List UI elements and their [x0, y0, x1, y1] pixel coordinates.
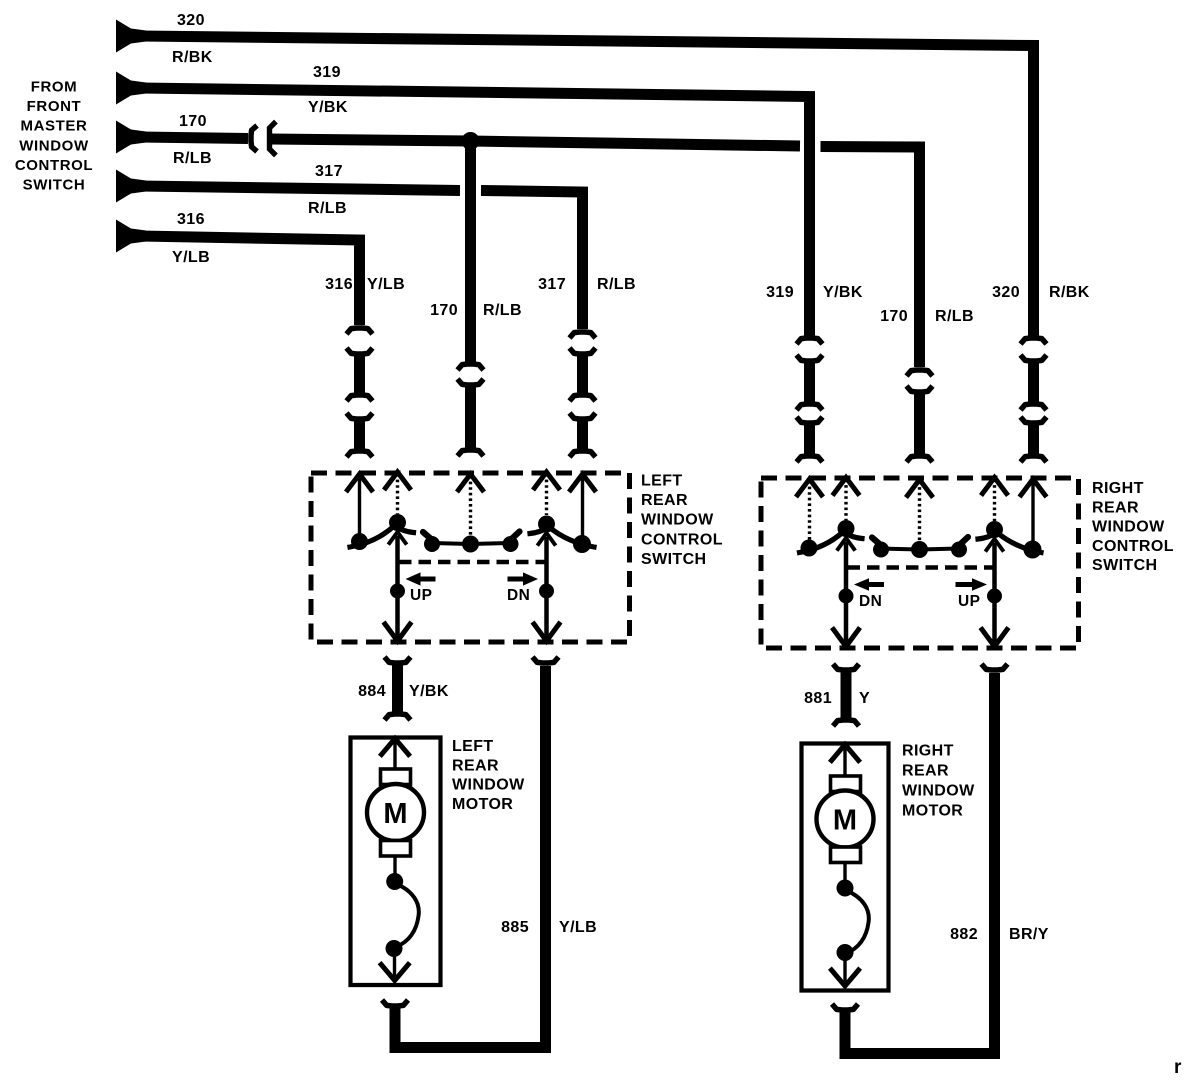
svg-text:320: 320 — [992, 284, 1020, 301]
wire 319 connector segment B — [797, 417, 823, 462]
wire 316 horizontal (entry to corner and down) — [116, 220, 360, 326]
UP output stem right — [992, 543, 997, 647]
contact dot 317 — [573, 535, 591, 553]
brush rect bottom right motor — [831, 847, 861, 863]
svg-text:R/LB: R/LB — [935, 308, 974, 325]
svg-text:317: 317 — [538, 276, 566, 293]
limit switch arc right motor — [846, 891, 869, 954]
wire 170 from connector to junction dot — [270, 139, 471, 141]
up arrowhead under UP pivot right — [987, 539, 1003, 550]
wire 170 left connector segment — [458, 379, 484, 456]
motor feed arrow up left motor — [382, 739, 409, 770]
pivot dot DN wiper — [538, 516, 555, 533]
svg-text:M: M — [383, 798, 407, 830]
UP output stem — [395, 536, 400, 641]
wire 319 horizontal (entry to corner and down) — [116, 72, 810, 338]
DN direction arrow right — [854, 578, 884, 591]
wire 317 connector segment B — [570, 413, 596, 457]
svg-text:170: 170 — [179, 113, 207, 130]
svg-text:320: 320 — [177, 12, 205, 29]
brush rect bottom left motor — [381, 841, 411, 857]
svg-text:DN: DN — [507, 587, 530, 604]
svg-text:319: 319 — [313, 64, 341, 81]
UP direction arrow right — [956, 578, 988, 591]
contact bar right half — [471, 543, 511, 544]
switch bottom arrow UP output right — [982, 630, 1007, 647]
wire 319 end connector fork — [797, 338, 823, 344]
svg-text:REAR: REAR — [902, 763, 949, 780]
svg-text:CONTROL: CONTROL — [641, 531, 723, 548]
hook contact bar left — [423, 532, 431, 539]
switch pin arrow UP contact right — [983, 478, 1007, 494]
pin 170 stem dotted right — [918, 482, 921, 542]
wire 884 segment — [392, 664, 403, 713]
pin 170 stem dotted — [469, 476, 472, 535]
entry arrow wire 170 — [116, 121, 146, 154]
wire 316 connector segment A — [347, 348, 373, 401]
motor feed arrow up right motor — [832, 745, 859, 777]
pivot dot UP wiper right — [986, 521, 1003, 538]
svg-text:Y/BK: Y/BK — [409, 683, 449, 700]
label 320 / R-BK top — [172, 12, 213, 66]
center contact dot 170 right — [911, 541, 928, 558]
wire 881 segment — [841, 671, 852, 719]
contact dot bar right — [503, 536, 519, 552]
right rear window motor box — [802, 744, 889, 991]
svg-text:MOTOR: MOTOR — [902, 803, 963, 820]
stem to bottom arrow left motor — [393, 950, 396, 979]
svg-text:SWITCH: SWITCH — [641, 551, 707, 568]
svg-text:R/LB: R/LB — [173, 150, 212, 167]
pin UP stem dotted right — [993, 480, 996, 522]
svg-text:316: 316 — [325, 276, 353, 293]
label LEFT REAR WINDOW MOTOR — [452, 738, 525, 813]
wire 884 connector fork bottom — [385, 714, 411, 720]
svg-text:Y/BK: Y/BK — [823, 284, 863, 301]
wire 170 right connector segment — [907, 386, 933, 462]
svg-text:Y/LB: Y/LB — [559, 919, 597, 936]
wire 882 run (motor to switch) — [845, 673, 995, 1054]
contact bar left half — [432, 543, 471, 544]
svg-text:MASTER: MASTER — [21, 118, 88, 135]
label FROM FRONT MASTER WINDOW CONTROL SWITCH — [15, 79, 93, 194]
motor bottom arrow down left — [381, 965, 408, 981]
label 319 / Y-BK top — [308, 64, 348, 116]
svg-text:R/LB: R/LB — [308, 200, 347, 217]
motor M circle right — [817, 791, 874, 848]
label LEFT REAR WINDOW CONTROL SWITCH — [641, 473, 723, 568]
label 881 / Y — [804, 690, 870, 707]
limit dot upper left motor — [386, 873, 403, 890]
junction dot wire 170 — [462, 132, 480, 150]
hook contact bar left right switch — [872, 538, 880, 545]
switch pin arrow 170 right feed — [908, 480, 932, 496]
limit dot lower right motor — [837, 944, 854, 961]
left rear window control switch dashed box — [311, 473, 630, 642]
wire 885 run (motor to switch) — [395, 666, 546, 1048]
svg-text:SWITCH: SWITCH — [1092, 557, 1158, 574]
label 320 / R-BK mid — [992, 284, 1090, 301]
wiper arc right pair right switch — [978, 533, 1041, 553]
pin DN stem dotted — [545, 474, 548, 515]
svg-text:FROM: FROM — [31, 79, 78, 96]
stem to limit dot left motor — [393, 856, 396, 876]
svg-text:UP: UP — [958, 593, 980, 610]
switch pin arrow 319 — [798, 479, 822, 495]
contact dot 320 — [1024, 541, 1042, 559]
junction dot UP stem right — [987, 589, 1002, 604]
wire 316 connector segment B — [347, 413, 373, 457]
svg-text:MOTOR: MOTOR — [452, 796, 513, 813]
mechanical link dashed line right switch — [848, 565, 995, 569]
svg-text:M: M — [833, 805, 857, 837]
contact dot 319 — [801, 540, 818, 557]
pivot dot UP wiper — [389, 514, 406, 531]
up arrowhead under DN pivot — [539, 533, 555, 544]
pin 319 stem — [808, 481, 811, 541]
brush rect top left motor — [381, 769, 411, 785]
switch pin arrow 320 — [1021, 479, 1045, 495]
switch pin arrow 170 feed — [459, 474, 483, 490]
label 170 / R-LB top — [173, 113, 212, 167]
label 317 / R-LB mid — [538, 276, 636, 293]
contact dot 316 — [351, 533, 368, 550]
junction dot DN stem right — [839, 589, 854, 604]
wire 885 connector fork top — [533, 657, 559, 663]
wire 320 connector segment B — [1021, 417, 1047, 462]
svg-text:R/LB: R/LB — [483, 302, 522, 319]
switch pin arrow DN contact — [535, 472, 559, 488]
svg-text:UP: UP — [410, 587, 432, 604]
svg-text:LEFT: LEFT — [641, 473, 683, 490]
svg-text:RIGHT: RIGHT — [1092, 480, 1144, 497]
switch pin arrow 317 — [571, 474, 595, 490]
label RIGHT REAR WINDOW MOTOR — [902, 743, 975, 820]
UP direction arrow — [406, 572, 436, 585]
svg-text:WINDOW: WINDOW — [19, 137, 89, 154]
switch pin arrow terminal 316 — [348, 474, 372, 490]
svg-text:170: 170 — [880, 308, 908, 325]
pin DN stem dotted right — [844, 480, 847, 521]
svg-text:WINDOW: WINDOW — [902, 783, 975, 800]
junction dot DN stem — [539, 584, 554, 599]
svg-text:R/BK: R/BK — [1049, 284, 1090, 301]
wire 170 horizontal left part up to inline connector — [140, 137, 248, 139]
label 316 / Y-LB top — [172, 211, 210, 266]
svg-text:316: 316 — [177, 211, 205, 228]
label 170 / R-LB mid-left — [430, 302, 522, 319]
wiper arc left pair — [350, 526, 414, 547]
svg-text:LEFT: LEFT — [452, 738, 494, 755]
mechanical link dashed line left switch — [399, 560, 546, 564]
wire 317 end connector fork — [570, 332, 596, 338]
wire 320 connector segment A — [1021, 355, 1047, 410]
wire 882 fork under right motor — [832, 1004, 858, 1010]
wire 170 right branch end connector fork — [907, 370, 933, 376]
switch bottom arrow DN output right — [834, 630, 859, 647]
motor bottom arrow down right — [832, 970, 859, 986]
svg-text:RIGHT: RIGHT — [902, 743, 954, 760]
svg-text:WINDOW: WINDOW — [641, 512, 714, 529]
switch bottom arrow DN output — [534, 624, 559, 641]
svg-text:Y/LB: Y/LB — [367, 276, 405, 293]
svg-text:885: 885 — [501, 919, 529, 936]
wire 885 fork under left motor — [382, 1000, 408, 1006]
label 316 / Y-LB mid — [325, 276, 405, 293]
svg-text:Y: Y — [859, 690, 870, 707]
wire 170 branch down to left switch — [465, 141, 476, 366]
pin 320 stem — [1031, 481, 1034, 543]
label 884 / Y-BK — [358, 683, 449, 700]
wire 319 connector segment A — [797, 355, 823, 410]
svg-text:r: r — [1174, 1057, 1182, 1078]
junction dot UP stem — [390, 584, 405, 599]
svg-text:881: 881 — [804, 690, 832, 707]
wiper arc right pair — [530, 527, 594, 547]
svg-text:REAR: REAR — [641, 492, 688, 509]
svg-text:319: 319 — [766, 284, 794, 301]
wire 320 end connector fork — [1021, 338, 1047, 344]
svg-text:WINDOW: WINDOW — [452, 777, 525, 794]
pin 316 stem — [358, 476, 361, 535]
svg-text:REAR: REAR — [452, 757, 499, 774]
label 319 / Y-BK mid — [766, 284, 863, 301]
hook contact bar right right switch — [961, 537, 969, 544]
svg-text:R/LB: R/LB — [597, 276, 636, 293]
up arrowhead under DN pivot right — [838, 538, 854, 549]
wire 316 end connector fork — [347, 328, 373, 334]
label 882 / BR-Y — [950, 926, 1049, 943]
switch bottom arrow UP output — [385, 624, 410, 641]
svg-text:BR/Y: BR/Y — [1009, 926, 1049, 943]
pin UP stem dotted — [396, 474, 399, 514]
wire 170 left branch end connector fork — [458, 364, 484, 370]
contact bar right half right switch — [920, 549, 960, 550]
motor M circle left — [367, 784, 424, 841]
stem to bottom arrow right motor — [843, 954, 846, 985]
contact bar left half right switch — [881, 549, 920, 550]
contact dot bar left right switch — [873, 542, 889, 558]
svg-text:CONTROL: CONTROL — [1092, 538, 1174, 555]
svg-text:882: 882 — [950, 926, 978, 943]
wiper arc left pair right switch — [800, 532, 863, 553]
switch pin arrow DN contact right — [834, 478, 858, 494]
svg-text:WINDOW: WINDOW — [1092, 519, 1165, 536]
wire 881 connector fork top — [833, 664, 859, 670]
label 170 / R-LB mid-right — [880, 308, 974, 325]
wire 320 horizontal (entry to right corner and down) — [116, 20, 1034, 338]
label 317 / R-LB top — [308, 163, 347, 217]
wire 317 horizontal left of crossover — [116, 170, 460, 203]
inline connector on wire 170 (male fork) — [251, 126, 257, 152]
wire 881 connector fork bottom — [833, 720, 859, 726]
DN output stem right — [844, 542, 849, 647]
wire 317 connector segment A — [570, 348, 596, 401]
limit dot lower left motor — [386, 940, 403, 957]
center contact dot 170 — [462, 536, 479, 553]
svg-text:DN: DN — [859, 593, 882, 610]
pivot dot DN wiper right — [838, 520, 855, 537]
svg-text:317: 317 — [315, 163, 343, 180]
wire 317 right part to corner and down — [481, 191, 583, 330]
switch pin arrow UP contact — [386, 472, 410, 488]
pin 317 stem — [581, 476, 584, 538]
contact dot bar left — [424, 536, 440, 552]
svg-text:REAR: REAR — [1092, 499, 1139, 516]
svg-text:FRONT: FRONT — [27, 98, 82, 115]
inline connector on wire 170 (female bar) — [270, 124, 275, 154]
right rear window control switch dashed box — [761, 478, 1079, 648]
brush rect top right motor — [831, 776, 861, 792]
label RIGHT REAR WINDOW CONTROL SWITCH — [1092, 480, 1174, 574]
up arrowhead under UP pivot — [390, 532, 406, 543]
left rear window motor box — [351, 738, 441, 986]
limit switch arc left motor — [396, 884, 419, 947]
wire 884 connector fork top — [385, 657, 411, 663]
wire 170 from dot to crossover gap at wire 319 — [471, 141, 801, 146]
stem to limit dot right motor — [843, 863, 846, 884]
limit dot upper right motor — [837, 880, 854, 897]
svg-text:884: 884 — [358, 683, 386, 700]
hook contact bar right — [512, 532, 520, 539]
DN direction arrow — [508, 572, 539, 585]
contact dot bar right right switch — [951, 542, 967, 558]
wire 882 connector fork top — [982, 664, 1008, 670]
svg-text:CONTROL: CONTROL — [15, 157, 93, 174]
svg-text:Y/BK: Y/BK — [308, 99, 348, 116]
svg-text:R/BK: R/BK — [172, 49, 213, 66]
label 885 / Y-LB — [501, 919, 597, 936]
svg-text:Y/LB: Y/LB — [172, 249, 210, 266]
DN output stem — [544, 537, 549, 641]
svg-text:SWITCH: SWITCH — [23, 177, 86, 194]
wire 170 right part to corner and down — [821, 147, 920, 368]
svg-text:170: 170 — [430, 302, 458, 319]
